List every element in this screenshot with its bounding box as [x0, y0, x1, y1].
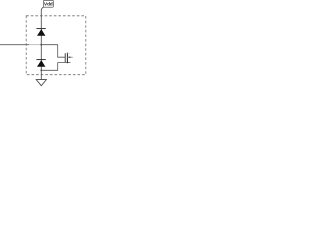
net label Vdd flag box: [42, 0, 54, 10]
channel bar: [66, 53, 68, 64]
gate bar: [64, 53, 66, 62]
wire: Vdd vertical rail: [40, 10, 42, 80]
label leader tail: [42, 7, 44, 10]
node ground junction: [40, 69, 42, 71]
wire: pad input from left edge: [0, 44, 29, 46]
transistor M1 (protected MOS gate): [65, 53, 73, 64]
drain stub: [67, 52, 70, 54]
svg-text:Vdd: Vdd: [44, 2, 53, 7]
background: [0, 0, 90, 90]
diode D2 (ground to pad): [36, 60, 45, 67]
ground: [36, 80, 46, 86]
node pad junction: [40, 44, 42, 46]
bulk arrow: [68, 56, 71, 58]
wire: pad net light segment: [29, 44, 41, 46]
bulk stub: [67, 56, 72, 58]
wire: source/bulk return branch: [41, 63, 70, 71]
wire: gate branch: [41, 45, 65, 58]
diode D1 (pad to Vdd): [36, 29, 45, 36]
dashed subcircuit boundary box: [26, 16, 86, 75]
